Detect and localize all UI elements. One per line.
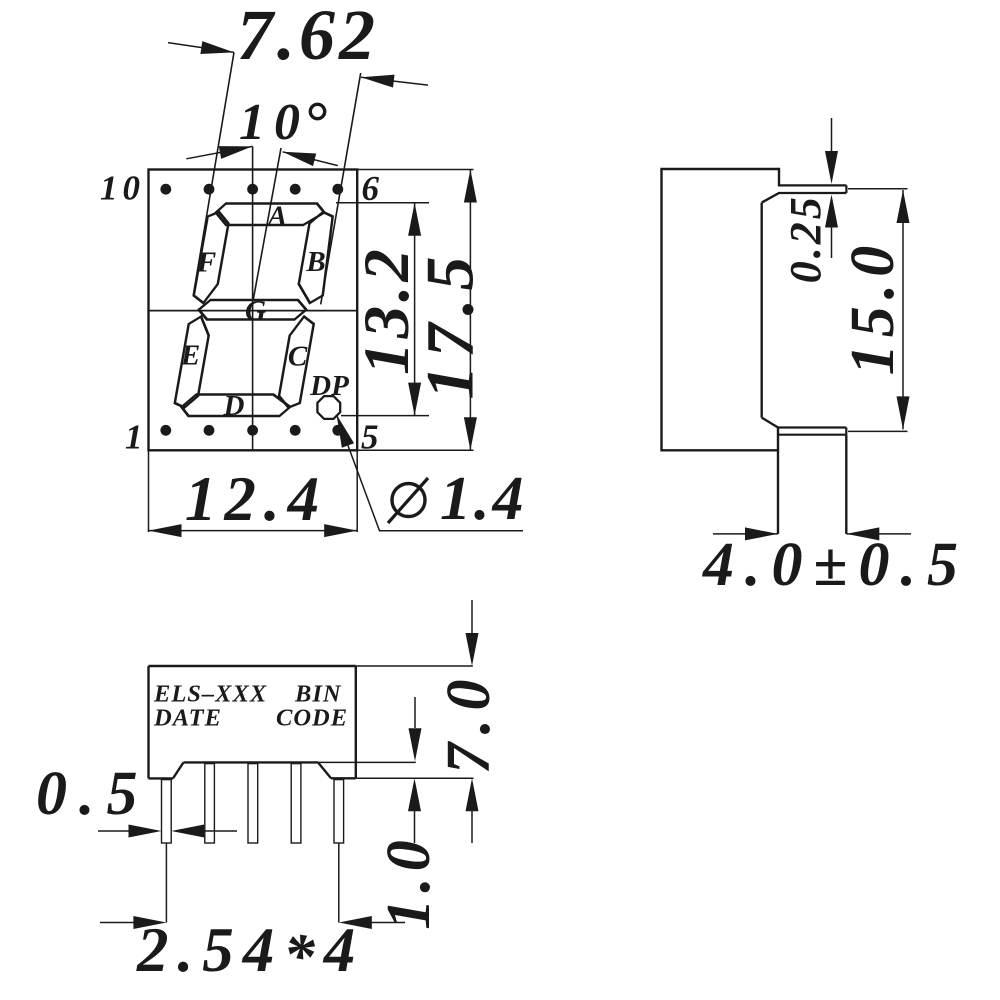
- pin dot 7: [290, 184, 301, 195]
- dimension 12.4 extension right: [356, 450, 358, 532]
- dimension 10deg leader right: [283, 152, 338, 166]
- arrowhead 12.4 right: [324, 524, 357, 537]
- arrowhead 7.62 left: [200, 41, 235, 59]
- dimension 7.62 leader right: [361, 77, 428, 85]
- pin 1 lead: [162, 780, 172, 843]
- pin dot 4: [290, 425, 301, 436]
- pin dot 1: [160, 425, 171, 436]
- svg-text:D: D: [223, 390, 245, 422]
- dimension 4.0 line right: [846, 533, 911, 535]
- dimension 15.0 extension top: [848, 188, 908, 190]
- slanted extension line right (7.62): [321, 73, 361, 304]
- pin dot 10: [160, 184, 171, 195]
- seven segment digit outline: [172, 204, 338, 417]
- arrowhead 4.0 right: [846, 527, 879, 540]
- DP leader line: [337, 415, 524, 531]
- dimension 10deg leader left: [186, 146, 252, 158]
- side view flange bottom: [778, 192, 846, 194]
- digit slant axis line (10 deg): [253, 148, 281, 300]
- arrowhead 0.5 right: [171, 825, 204, 838]
- arrowhead 17.5 top: [464, 170, 477, 203]
- dimension 0.5 line right: [203, 830, 237, 832]
- dimension 15.0 line: [902, 190, 904, 429]
- extension line y778: [356, 777, 474, 779]
- arrowhead 15.0 bottom: [897, 396, 910, 429]
- side view tab right edge: [845, 428, 847, 435]
- bottom view chamfer left: [173, 762, 184, 778]
- svg-text:4.0±0.5: 4.0±0.5: [702, 531, 969, 599]
- segment G: [197, 300, 308, 320]
- svg-text:5: 5: [361, 418, 379, 457]
- svg-text:1: 1: [125, 418, 143, 457]
- pin dot 2: [204, 425, 215, 436]
- bottom view body right edge: [355, 666, 357, 778]
- svg-text:DP: DP: [309, 370, 349, 402]
- svg-text:0.5: 0.5: [36, 760, 150, 828]
- segment E: [174, 317, 212, 408]
- arrowhead DP leader: [330, 412, 354, 447]
- dimension 7.0 extension top: [356, 665, 473, 667]
- svg-text:10: 10: [239, 94, 309, 151]
- side view face vertical: [761, 203, 763, 418]
- pin5 extension down: [338, 843, 340, 923]
- bottom view body bottom right: [331, 777, 356, 779]
- svg-text:ELS–XXX: ELS–XXX: [153, 681, 267, 708]
- arrowhead 13.2 bottom: [408, 383, 421, 416]
- segment D: [180, 395, 292, 417]
- side view tab top: [778, 426, 846, 428]
- svg-text:2.54*4: 2.54*4: [136, 915, 364, 991]
- pin dot 6: [332, 184, 343, 195]
- dimension 1.0 arrow line top: [414, 697, 416, 728]
- front view package outline: [149, 170, 358, 451]
- dimension 17.5 line: [469, 170, 471, 451]
- arrowhead 15.0 top: [897, 190, 910, 223]
- dimension 7.62 leader left: [168, 43, 234, 53]
- pin dot 3: [247, 425, 258, 436]
- svg-text:BIN: BIN: [294, 681, 342, 708]
- arrowhead 10deg left: [219, 140, 254, 159]
- dimension 13.2 extension top: [336, 202, 429, 204]
- svg-text:C: C: [288, 341, 308, 373]
- segment F: [192, 212, 230, 303]
- bottom view body top edge: [149, 665, 356, 667]
- dimension 15.0 extension bottom: [848, 430, 908, 432]
- arrowhead 7.0 bottom: [466, 778, 479, 811]
- pin dot 5: [332, 425, 343, 436]
- dimension 7.0 arrow line bottom: [471, 811, 473, 843]
- vertical centerline: [252, 146, 254, 450]
- segment A: [214, 204, 326, 226]
- pin1 extension down: [165, 843, 167, 923]
- segment B: [295, 212, 337, 303]
- dimension 12.4 extension left: [148, 450, 150, 532]
- svg-text:10: 10: [100, 169, 145, 208]
- side view right edge top: [778, 168, 780, 186]
- dimension 2.54 line left: [100, 922, 134, 924]
- arrowhead 7.0 top: [466, 633, 479, 666]
- arrowhead 7.62 right: [360, 71, 394, 88]
- arrowhead 12.4 left: [149, 524, 182, 537]
- dimension 7.0 arrow line top: [471, 600, 473, 633]
- dimension 13.2 line: [414, 203, 416, 416]
- svg-text:12.4: 12.4: [185, 464, 327, 534]
- svg-text:F: F: [196, 247, 216, 279]
- svg-text:1.4: 1.4: [440, 465, 527, 533]
- dimension 17.5 extension bottom: [357, 449, 473, 451]
- label diameter 1.4: [388, 478, 428, 523]
- side view chamfer bottom: [762, 418, 778, 428]
- arrowhead 1.0 top: [409, 728, 422, 761]
- dimension 0.25 arrow line top: [831, 118, 833, 160]
- pin 2 lead: [205, 764, 215, 843]
- svg-text:6: 6: [362, 169, 380, 208]
- dimension 1.0 arrow line bottom: [414, 811, 416, 843]
- side view flange top: [778, 184, 846, 186]
- arrowhead 17.5 bottom: [464, 417, 477, 450]
- dimension 0.25 arrow line bottom: [831, 220, 833, 258]
- svg-text:15.0: 15.0: [839, 239, 907, 376]
- arrowhead 2.54 right: [339, 916, 372, 929]
- svg-text:A: A: [266, 200, 287, 232]
- dimension 2.54 line right: [371, 922, 405, 924]
- side view back block: [662, 169, 780, 450]
- bottom view shoulder: [184, 761, 319, 763]
- pin 5 lead: [334, 780, 344, 843]
- dimension 12.4 line: [149, 530, 358, 532]
- decimal point DP octagon: [317, 396, 340, 419]
- pin dot 8: [247, 184, 258, 195]
- bottom view body left edge: [147, 666, 149, 778]
- pin dot 9: [204, 184, 215, 195]
- arrowhead 0.25 bottom: [825, 195, 838, 228]
- svg-text:E: E: [180, 340, 200, 372]
- pin 3 lead: [248, 764, 258, 843]
- svg-text:B: B: [305, 246, 325, 278]
- arrowhead 0.25 top: [825, 151, 838, 184]
- arrowhead 10deg right: [281, 145, 316, 166]
- pin 4 lead: [291, 764, 301, 843]
- svg-text:CODE: CODE: [276, 705, 348, 732]
- bottom view chamfer right: [318, 762, 331, 778]
- dimension 13.2 extension bottom: [341, 415, 429, 417]
- arrowhead 4.0 left: [745, 527, 778, 540]
- svg-text:G: G: [245, 295, 266, 327]
- arrowhead 2.54 left: [133, 916, 166, 929]
- side view chamfer top: [762, 193, 779, 203]
- dimension 1.0 shoulder extension: [318, 761, 416, 763]
- arrowhead 13.2 top: [408, 203, 421, 236]
- segment C: [277, 317, 315, 408]
- svg-text:DATE: DATE: [153, 705, 222, 732]
- svg-text:17.5: 17.5: [412, 249, 488, 400]
- arrowhead 0.5 left: [129, 825, 162, 838]
- dimension 0.5 line left: [98, 830, 129, 832]
- svg-text:0.25: 0.25: [781, 194, 830, 283]
- slanted extension line left (7.62): [193, 52, 234, 294]
- svg-text:7.0: 7.0: [435, 671, 503, 774]
- side view flange right edge: [845, 185, 847, 193]
- bottom view body bottom left: [149, 777, 174, 779]
- dimension 4.0 line left: [713, 533, 778, 535]
- svg-text:1.0: 1.0: [375, 834, 443, 930]
- side view stem right: [845, 435, 847, 534]
- side view tab bottom: [778, 434, 846, 436]
- arrowhead 1.0 bottom: [408, 778, 421, 811]
- horizontal centerline: [149, 310, 358, 312]
- svg-text:7.62: 7.62: [237, 0, 379, 75]
- side view stem left: [777, 428, 779, 534]
- dimension 17.5 extension top: [357, 169, 473, 171]
